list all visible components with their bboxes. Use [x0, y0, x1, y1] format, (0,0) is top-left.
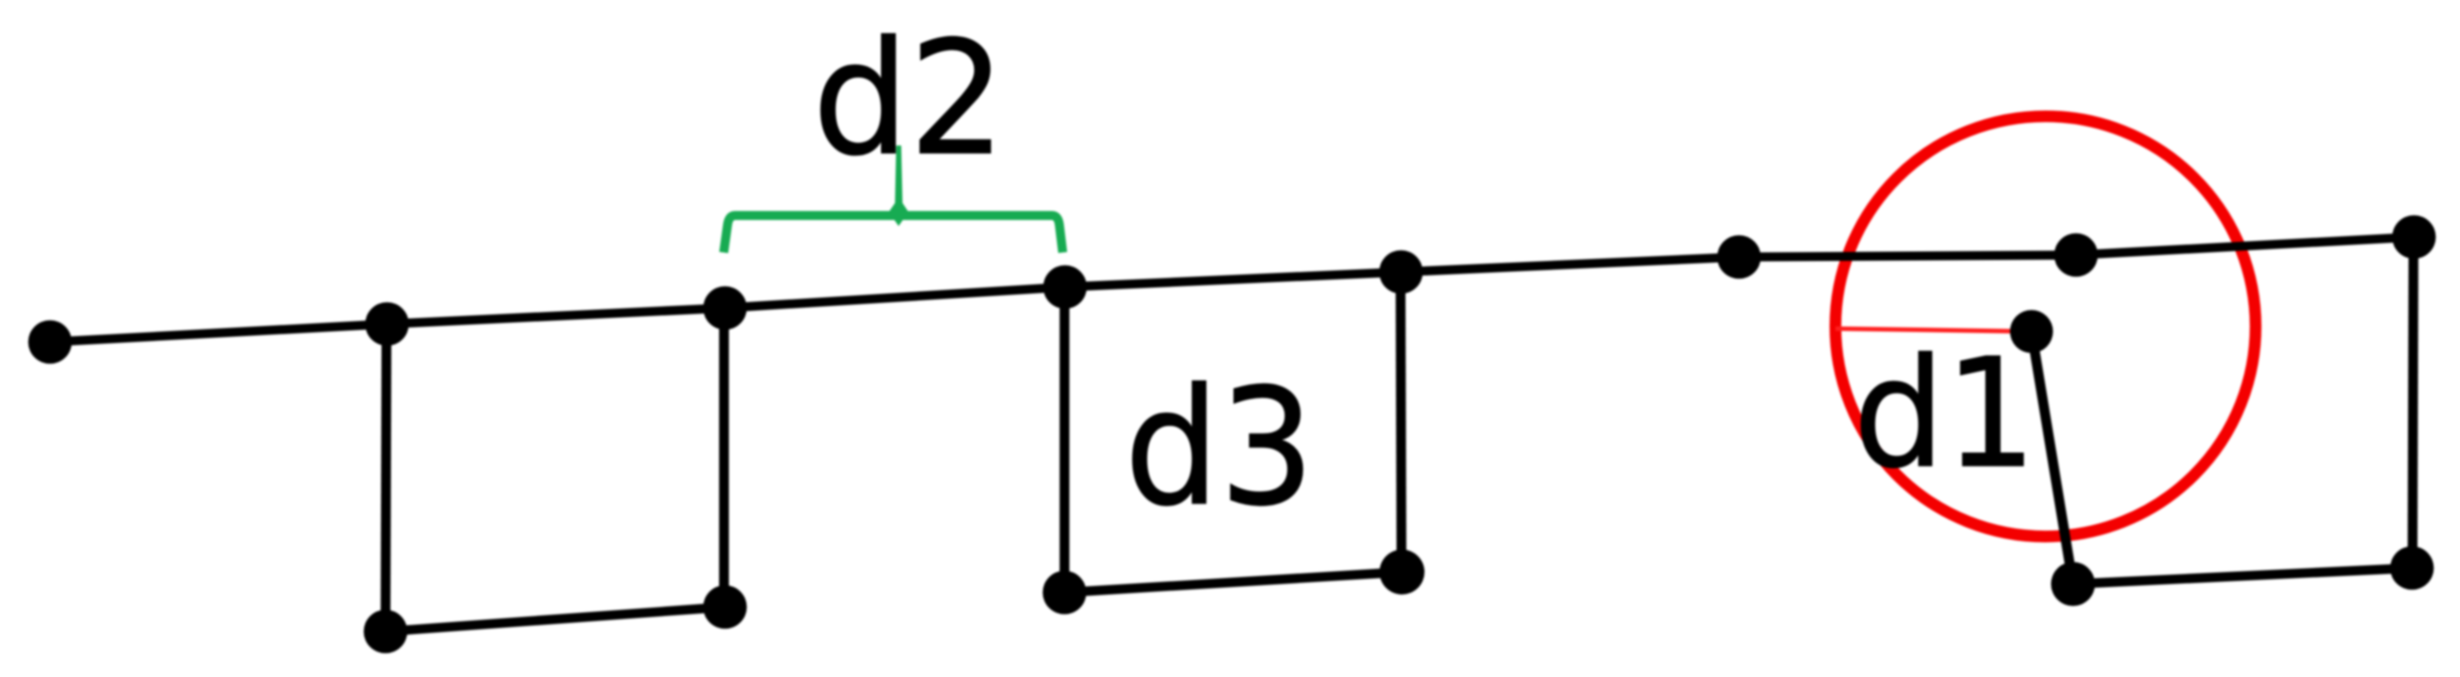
wire T4-B4 (square 2 right side): [1401, 272, 1402, 572]
wire B5-B6 (square 3 bottom): [2073, 568, 2412, 584]
wire T5-T6: [1739, 255, 2076, 257]
node B4: [1380, 550, 1425, 595]
wire T0-T1: [50, 324, 387, 342]
node T3: [1043, 265, 1087, 309]
node T1: [365, 302, 409, 346]
node B1: [364, 610, 408, 654]
wire T2-T3: [725, 287, 1065, 308]
node B5: [2051, 562, 2095, 606]
wire T1-T2: [387, 308, 725, 324]
wire T1-B1 (square 1 left side): [386, 324, 387, 632]
node B3: [1043, 571, 1087, 615]
red radius line d1: [1836, 329, 2032, 332]
wire T4-T5: [1401, 257, 1739, 272]
node C (displaced point, circle centre): [2010, 310, 2053, 353]
wire B3-B4 (square 2 bottom): [1065, 572, 1403, 593]
node T0: [28, 320, 72, 364]
wire C-B5 (displaced square 3 left side): [2032, 332, 2074, 585]
node T2: [703, 286, 747, 330]
wire T3-B3 (square 2 left side): [1060, 287, 1070, 593]
green brace d2 centre stem (tapered cusp): [889, 146, 909, 227]
wire T6-T7: [2076, 237, 2414, 255]
wire T7-B6 (square 3 right side): [2413, 237, 2414, 568]
node T4: [1379, 250, 1423, 294]
wire T2-B2 (square 1 right side): [719, 308, 729, 607]
node B6: [2390, 546, 2434, 590]
label d2: [821, 34, 990, 155]
label d3: [1133, 381, 1303, 505]
green brace d2 span (bar with flared end ticks): [724, 216, 1063, 253]
wire T3-T4: [1065, 272, 1401, 287]
node T7: [2392, 215, 2436, 259]
red circle (radius d1 highlight): [1835, 116, 2255, 536]
wire B1-B2 (square 1 bottom): [386, 607, 726, 632]
node B2: [703, 585, 747, 629]
node T5: [1717, 235, 1761, 279]
label d1: [1861, 351, 2023, 467]
node T6: [2054, 233, 2098, 277]
